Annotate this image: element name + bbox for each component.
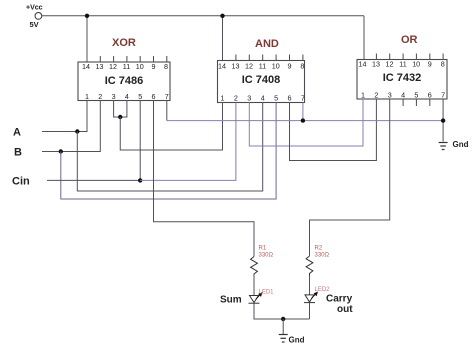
svg-text:4: 4	[125, 92, 129, 101]
svg-text:9: 9	[288, 62, 292, 71]
svg-text:13: 13	[232, 62, 240, 71]
wire ground stem	[282, 319, 284, 334]
svg-text:1: 1	[361, 91, 365, 100]
wire 7408 pin7 drop	[302, 103, 304, 121]
svg-text:5: 5	[414, 91, 418, 100]
wire 7486 pin7 stub to ground rail	[166, 101, 168, 121]
junction XOR1 output node	[118, 115, 122, 119]
svg-text:3: 3	[247, 94, 251, 103]
7486 top pin numbers	[82, 62, 168, 71]
junction Vcc/7408	[220, 14, 224, 18]
svg-text:8: 8	[164, 62, 168, 71]
7486 top pin stubs 13..8	[100, 56, 167, 62]
svg-text:OR: OR	[401, 34, 418, 46]
svg-text:2: 2	[98, 92, 102, 101]
svg-text:LED2: LED2	[315, 287, 331, 293]
svg-text:13: 13	[372, 60, 380, 69]
wire input Cin to 7486 pin5	[47, 179, 140, 181]
7408 bottom pin numbers	[221, 94, 305, 103]
7432 bottom pin numbers	[361, 91, 445, 100]
wire R2 to LED2	[309, 276, 311, 295]
wire 7432 pin7 drop to ground	[442, 99, 444, 142]
wire 7408 pin3 to 7432 pin1	[249, 99, 363, 146]
svg-text:4: 4	[261, 94, 265, 103]
svg-text:5: 5	[274, 94, 278, 103]
svg-text:7: 7	[441, 91, 445, 100]
wire Vcc rail	[42, 15, 364, 17]
svg-text:6: 6	[428, 91, 432, 100]
svg-text:IC 7408: IC 7408	[242, 74, 281, 86]
resistor R1 zigzag	[251, 257, 258, 276]
svg-text:4: 4	[401, 91, 405, 100]
svg-text:R1: R1	[259, 246, 267, 252]
LED2 symbol	[304, 295, 315, 303]
svg-text:+Vcc: +Vcc	[26, 5, 43, 12]
7408 top pin numbers	[218, 62, 304, 71]
svg-text:Sum: Sum	[220, 295, 242, 306]
svg-text:Cin: Cin	[12, 175, 30, 187]
svg-text:Gnd: Gnd	[289, 336, 305, 345]
junction Vcc/7486	[85, 14, 89, 18]
svg-text:7: 7	[301, 94, 305, 103]
svg-text:330Ω: 330Ω	[315, 253, 330, 259]
svg-text:14: 14	[359, 60, 367, 69]
7432 bottom stubs pins 4,5,6	[403, 99, 430, 106]
svg-text:2: 2	[374, 91, 378, 100]
svg-text:10: 10	[272, 62, 280, 71]
svg-text:6: 6	[152, 92, 156, 101]
svg-text:11: 11	[399, 60, 406, 69]
svg-text:R2: R2	[315, 246, 323, 252]
wire Sum net 7486 pin6 to R1	[154, 101, 255, 257]
svg-text:3: 3	[112, 92, 116, 101]
svg-text:6: 6	[288, 94, 292, 103]
svg-text:10: 10	[136, 62, 144, 71]
wire Vcc drop to IC7432 pin14	[363, 16, 365, 60]
svg-text:IC 7432: IC 7432	[383, 72, 422, 84]
svg-text:LED1: LED1	[259, 290, 275, 296]
svg-text:XOR: XOR	[112, 37, 136, 49]
svg-text:12: 12	[386, 60, 394, 69]
svg-text:3: 3	[388, 91, 392, 100]
7432 top pin stubs 13..8	[376, 54, 443, 60]
resistor R2 zigzag	[306, 256, 313, 276]
LED2 arrow	[311, 292, 317, 298]
svg-text:IC 7486: IC 7486	[105, 75, 144, 87]
wire LED1 to ground rail	[254, 303, 310, 319]
wire Cin branch to 7408 pin2	[140, 103, 236, 181]
junction 7432 pin7/gnd rail	[441, 118, 445, 122]
junction A branch	[75, 129, 79, 133]
LED1 symbol	[249, 296, 260, 304]
wire Vcc drop to IC7408 pin14	[222, 16, 224, 61]
wire XOR1 output to 7408 pin1	[120, 103, 222, 151]
svg-text:13: 13	[96, 62, 104, 71]
svg-text:5V: 5V	[30, 20, 39, 29]
svg-text:12: 12	[109, 62, 117, 71]
wire R1 to LED1	[253, 276, 255, 296]
svg-text:11: 11	[259, 62, 266, 71]
IC U2 7408 body	[218, 61, 305, 103]
svg-text:AND: AND	[255, 38, 279, 50]
wire 7408 pin6 to 7432 pin2	[290, 99, 377, 161]
svg-text:8: 8	[300, 62, 304, 71]
wire 7486 pin5 drop	[139, 101, 141, 181]
svg-text:14: 14	[218, 62, 226, 71]
svg-text:Gnd: Gnd	[453, 140, 469, 149]
IC U3 7432 body	[357, 60, 447, 100]
wire B branch to 7408 pin5	[61, 103, 276, 200]
svg-text:1: 1	[221, 94, 225, 103]
ground symbol right	[439, 143, 448, 150]
junction 7408 pin7/gnd rail	[301, 118, 305, 122]
junction LED ground rail	[281, 317, 285, 321]
wire ground rail horizontal	[167, 120, 443, 122]
svg-text:5: 5	[138, 92, 142, 101]
junction Cin/7486 pin5	[138, 178, 142, 182]
IC U1 7486 body	[78, 62, 170, 101]
7408 top pin stubs 13..8	[236, 55, 303, 61]
svg-text:8: 8	[441, 60, 445, 69]
wire Carry net 7432 pin3 to R2	[310, 99, 390, 256]
wire Vcc drop to IC7486 pin14	[86, 16, 88, 62]
svg-text:1: 1	[85, 92, 89, 101]
LED1 arrow	[256, 293, 262, 299]
7432 top pin numbers	[359, 60, 445, 69]
junction B branch	[59, 149, 63, 153]
ground symbol bottom	[279, 335, 288, 343]
svg-text:2: 2	[234, 94, 238, 103]
svg-text:12: 12	[245, 62, 253, 71]
wire A branch to 7408 pin4	[77, 103, 262, 192]
svg-text:A: A	[13, 127, 21, 139]
svg-text:7: 7	[165, 92, 169, 101]
wire input B to 7486 pin2	[42, 101, 100, 152]
svg-text:11: 11	[123, 62, 130, 71]
svg-text:9: 9	[428, 60, 432, 69]
svg-text:14: 14	[82, 62, 90, 71]
7486 bottom pin numbers	[85, 92, 169, 101]
wire input A to 7486 pin1	[42, 101, 87, 132]
svg-text:9: 9	[152, 62, 156, 71]
svg-text:330Ω: 330Ω	[259, 253, 274, 259]
svg-text:out: out	[337, 304, 353, 315]
wire 7486 pin3-pin4 loop	[114, 101, 127, 118]
svg-text:10: 10	[412, 60, 420, 69]
wire LED2 to ground rail	[309, 303, 311, 319]
power supply terminal circle	[35, 13, 42, 20]
svg-text:B: B	[14, 147, 22, 159]
